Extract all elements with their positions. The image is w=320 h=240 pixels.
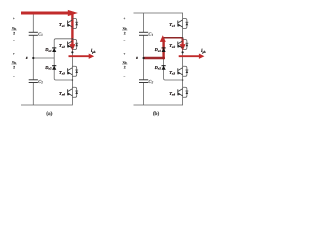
svg-text:−: − [123, 38, 125, 42]
svg-text:+: + [13, 52, 15, 56]
wire top bus b [134, 13, 183, 19]
wire clamp branch a [54, 39, 72, 80]
svg-text:Dx1: Dx1 [154, 47, 162, 53]
wire bottom bus a [21, 97, 72, 105]
wire capacitor leg b [143, 13, 145, 32]
svg-text:C1: C1 [38, 32, 43, 37]
svg-text:Tx2: Tx2 [169, 43, 175, 49]
wire capacitor leg a [32, 13, 34, 32]
svg-text:Tx3: Tx3 [59, 70, 65, 76]
transistor Tx3 [68, 66, 79, 76]
svg-text:−: − [13, 74, 15, 78]
transistor Tx3 [178, 66, 189, 76]
diode Dx2 [162, 66, 166, 70]
transistor Tx1 [68, 19, 79, 29]
transistor Tx2 [68, 40, 79, 50]
transistor Tx1 [178, 19, 189, 29]
svg-text:C2: C2 [38, 79, 43, 84]
svg-text:+: + [13, 17, 15, 21]
node z junction a [32, 57, 34, 59]
wire transistor chain b [182, 19, 184, 98]
svg-text:C2: C2 [148, 79, 153, 84]
wire neutral z line b [144, 57, 164, 59]
svg-text:Tx1: Tx1 [59, 22, 65, 28]
wire top bus a [21, 13, 72, 19]
label +vdc/2- upper a [11, 17, 17, 43]
svg-text:(a): (a) [46, 111, 52, 117]
arrowhead right on top bus a [68, 10, 78, 16]
label +vdc/2- lower a [11, 52, 17, 78]
svg-text:2: 2 [13, 66, 15, 70]
arrowhead down into output node b [180, 44, 186, 51]
node clamp bottom b [182, 79, 184, 81]
wire red stub to chain b [164, 37, 183, 39]
wire red chain segment b [182, 38, 184, 47]
label +vdc/2- lower b [122, 52, 128, 78]
capacitor C1 [139, 32, 148, 35]
node clamp top b [182, 37, 184, 39]
wire red top bus current path a [21, 12, 73, 15]
wire clamp branch b [164, 38, 183, 80]
capacitor C1 [29, 32, 38, 35]
svg-text:+: + [123, 52, 125, 56]
output current arrow io a [69, 55, 90, 57]
svg-text:2: 2 [13, 32, 15, 36]
svg-text:2: 2 [124, 66, 126, 70]
label +vdc/2- upper b [122, 17, 128, 43]
svg-text:Tx3: Tx3 [169, 70, 175, 76]
node output a [71, 51, 73, 53]
wire transistor chain a [71, 19, 73, 98]
capacitor C2 [139, 80, 148, 83]
svg-text:Tx4: Tx4 [169, 91, 175, 97]
svg-text:Dx2: Dx2 [154, 65, 162, 71]
svg-text:−: − [123, 74, 125, 78]
svg-text:−: − [13, 38, 15, 42]
wire bottom bus b [134, 97, 183, 105]
node clamp z corner b [162, 57, 165, 60]
diode Dx2 [52, 66, 56, 70]
wire red clamp column up b [162, 41, 164, 59]
arrowhead up on clamp branch b [160, 35, 166, 42]
wire neutral z line a [33, 57, 54, 59]
svg-text:(b): (b) [153, 111, 160, 117]
wire red chain segment a [71, 13, 73, 47]
wire red neutral z path b [144, 57, 165, 60]
diode Dx1 [52, 48, 56, 52]
svg-text:Dx1: Dx1 [44, 47, 52, 53]
diode Dx1 [162, 48, 166, 52]
node clamp top a [72, 38, 74, 40]
transistor Tx4 [68, 87, 79, 97]
transistor Tx4 [178, 87, 189, 97]
svg-text:2: 2 [124, 32, 126, 36]
output current arrow io b [179, 55, 200, 57]
svg-text:+: + [123, 17, 125, 21]
transistor Tx2 [178, 40, 189, 50]
node z junction b [143, 57, 145, 59]
node output b [182, 51, 184, 53]
node clamp bottom a [72, 79, 74, 81]
svg-text:z: z [25, 55, 28, 60]
svg-text:Dx2: Dx2 [44, 65, 52, 71]
capacitor C2 [29, 80, 38, 83]
svg-text:Tx4: Tx4 [59, 91, 65, 97]
arrowhead down into output node a [69, 44, 75, 51]
svg-text:z: z [135, 55, 138, 60]
svg-text:C1: C1 [148, 32, 153, 37]
svg-text:Tx2: Tx2 [59, 43, 65, 49]
svg-text:Tx1: Tx1 [169, 22, 175, 28]
